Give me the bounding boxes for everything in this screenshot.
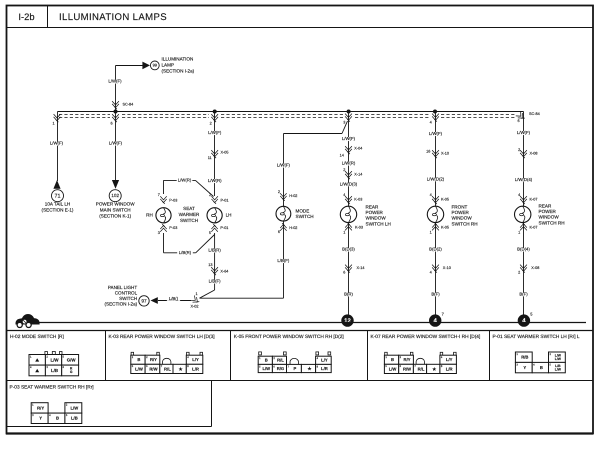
svg-text:R/G: R/G [277, 366, 284, 371]
svg-text:X-64: X-64 [220, 270, 228, 274]
svg-text:P-03 SEAT WARMER SWITCH RH [Rr: P-03 SEAT WARMER SWITCH RH [Rr] [10, 385, 94, 391]
svg-text:3: 3 [343, 121, 345, 125]
svg-text:K-05: K-05 [441, 198, 449, 202]
svg-text:B: B [265, 358, 268, 363]
svg-text:P-01: P-01 [221, 199, 229, 203]
svg-text:L/R: L/R [192, 366, 199, 371]
svg-text:7: 7 [158, 193, 160, 197]
svg-text:1: 1 [518, 231, 520, 235]
svg-text:X-10: X-10 [443, 266, 451, 270]
svg-text:(SECTION I-2a): (SECTION I-2a) [105, 302, 138, 307]
svg-text:X-02: X-02 [190, 305, 198, 309]
svg-text:2: 2 [343, 168, 345, 172]
svg-text:R/L: R/L [277, 358, 284, 363]
svg-text:B(D(2): B(D(2) [429, 247, 442, 252]
svg-text:L/B(R): L/B(R) [208, 248, 221, 253]
svg-text:I-2b: I-2b [18, 11, 34, 22]
svg-text:WINDOW: WINDOW [539, 215, 560, 220]
svg-text:K-03: K-03 [354, 198, 362, 202]
svg-text:R/L: R/L [418, 366, 425, 371]
svg-text:X-08: X-08 [531, 266, 539, 270]
svg-text:L/W(F): L/W(F) [342, 136, 356, 141]
svg-text:L/W(R): L/W(R) [178, 178, 192, 183]
svg-text:L/B(R): L/B(R) [179, 250, 192, 255]
svg-text:K-03 REAR POWER WINDOW SWITCH: K-03 REAR POWER WINDOW SWITCH LH [D(3] [109, 334, 215, 340]
svg-text:L/W: L/W [51, 357, 60, 362]
svg-text:K-05: K-05 [441, 226, 449, 230]
svg-text:14: 14 [340, 154, 344, 158]
svg-text:K-05 FRONT POWER WINDOW SWITCH: K-05 FRONT POWER WINDOW SWITCH RH [D(2] [234, 334, 344, 340]
svg-text:R/B: R/B [521, 355, 528, 360]
svg-text:4: 4 [430, 271, 432, 275]
svg-text:6: 6 [517, 119, 519, 123]
svg-text:R/L: R/L [164, 366, 171, 371]
svg-text:5: 5 [209, 231, 211, 235]
svg-text:K-07: K-07 [530, 226, 538, 230]
svg-text:B: B [391, 357, 394, 362]
svg-text:P-03: P-03 [169, 226, 177, 230]
svg-text:97: 97 [141, 298, 147, 304]
svg-text:99: 99 [153, 63, 158, 68]
svg-text:R/W: R/W [149, 366, 157, 371]
svg-text:L/W(F): L/W(F) [108, 79, 122, 84]
svg-text:ILLUMINATION LAMPS: ILLUMINATION LAMPS [59, 12, 167, 23]
svg-text:SEAT: SEAT [183, 206, 195, 211]
svg-text:WINDOW: WINDOW [452, 216, 473, 221]
svg-text:PANEL LIGHT: PANEL LIGHT [108, 285, 138, 290]
svg-text:G: G [70, 370, 73, 374]
svg-text:LAMP: LAMP [162, 63, 175, 68]
svg-text:L/R: L/R [446, 366, 453, 371]
svg-text:5: 5 [530, 312, 533, 317]
svg-text:ILLUMINATION: ILLUMINATION [162, 57, 194, 62]
svg-text:L/W: L/W [555, 357, 562, 361]
svg-text:X-14: X-14 [354, 173, 362, 177]
svg-text:★: ★ [431, 366, 436, 371]
svg-text:13: 13 [208, 263, 212, 267]
svg-text:L/W(F): L/W(F) [109, 141, 123, 146]
svg-text:REAR: REAR [539, 204, 552, 209]
svg-text:POWER WINDOW: POWER WINDOW [96, 202, 135, 207]
svg-text:L/B(): L/B() [169, 296, 179, 301]
svg-text:WINDOW: WINDOW [366, 216, 387, 221]
svg-text:X-14: X-14 [357, 266, 365, 270]
svg-text:P-01 SEAT WARMER SWITCH LH [R/: P-01 SEAT WARMER SWITCH LH [R/] L [493, 334, 580, 340]
svg-text:1: 1 [430, 231, 432, 235]
svg-text:2: 2 [518, 148, 520, 152]
svg-text:1: 1 [343, 231, 345, 235]
svg-text:X-05: X-05 [221, 151, 229, 155]
svg-text:G/W: G/W [67, 357, 77, 362]
svg-text:L/W(F): L/W(F) [50, 141, 64, 146]
svg-text:L/B: L/B [51, 368, 58, 373]
svg-text:L/W(D(3): L/W(D(3) [340, 182, 358, 187]
svg-text:SWITCH: SWITCH [119, 296, 137, 301]
svg-text:SWITCH RH: SWITCH RH [452, 221, 478, 226]
svg-text:L/W: L/W [71, 405, 79, 410]
svg-text:SWITCH: SWITCH [180, 218, 198, 223]
svg-text:71: 71 [55, 193, 61, 199]
svg-text:B(F): B(F) [519, 292, 528, 297]
svg-text:P: P [294, 366, 297, 371]
svg-text:L/W: L/W [262, 366, 270, 371]
svg-text:L/W: L/W [135, 366, 143, 371]
svg-text:7: 7 [442, 312, 445, 317]
svg-text:K-03: K-03 [355, 226, 363, 230]
svg-text:L/Y: L/Y [192, 357, 199, 362]
svg-text:L/R: L/R [321, 366, 328, 371]
svg-text:L/W(D(2): L/W(D(2) [427, 177, 445, 182]
svg-text:3: 3 [158, 231, 160, 235]
svg-text:L/W(R): L/W(R) [208, 178, 222, 183]
svg-text:WARMER: WARMER [179, 212, 200, 217]
svg-text:★: ★ [307, 366, 312, 371]
svg-text:1: 1 [195, 292, 197, 296]
svg-text:L/W(R): L/W(R) [342, 161, 356, 166]
svg-text:L/B: L/B [71, 416, 78, 421]
svg-text:X-08: X-08 [530, 152, 538, 156]
svg-text:1: 1 [52, 122, 54, 126]
svg-text:R/W: R/W [403, 366, 411, 371]
svg-text:POWER: POWER [539, 209, 557, 214]
svg-text:L/W: L/W [389, 366, 397, 371]
svg-text:SWITCH: SWITCH [296, 214, 314, 219]
svg-text:B(D(3): B(D(3) [342, 247, 355, 252]
svg-text:L/Y: L/Y [446, 357, 453, 362]
svg-text:X-04: X-04 [354, 147, 362, 151]
svg-text:6: 6 [278, 230, 280, 234]
svg-text:R/Y: R/Y [150, 357, 157, 362]
svg-text:SC-84: SC-84 [123, 103, 134, 107]
svg-text:Y: Y [523, 365, 526, 370]
svg-text:16: 16 [426, 150, 430, 154]
svg-text:2: 2 [278, 190, 280, 194]
svg-text:12: 12 [344, 317, 351, 324]
svg-text:B: B [540, 365, 543, 370]
svg-text:B(R): B(R) [344, 292, 353, 297]
svg-text:L/W(F): L/W(F) [208, 130, 222, 135]
svg-text:11: 11 [208, 156, 212, 160]
svg-text:(SECTION K-1): (SECTION K-1) [99, 213, 131, 218]
svg-text:L/B(F): L/B(F) [209, 279, 222, 284]
svg-text:LH: LH [226, 213, 232, 218]
svg-text:CONTROL: CONTROL [115, 291, 138, 296]
svg-text:SWITCH LH: SWITCH LH [366, 221, 391, 226]
svg-text:Y: Y [39, 416, 42, 421]
svg-text:4: 4 [343, 193, 345, 197]
svg-text:4: 4 [430, 193, 432, 197]
svg-text:2: 2 [518, 271, 520, 275]
svg-text:H-02: H-02 [289, 194, 297, 198]
svg-text:POWER: POWER [452, 210, 470, 215]
svg-text:X-10: X-10 [441, 152, 449, 156]
svg-text:H-02: H-02 [289, 226, 297, 230]
svg-text:SC-84: SC-84 [529, 112, 540, 116]
svg-text:(SECTION E-1): (SECTION E-1) [42, 208, 74, 213]
svg-text:P-03: P-03 [169, 199, 177, 203]
svg-text:MAIN SWITCH: MAIN SWITCH [100, 208, 131, 213]
svg-text:102: 102 [111, 193, 119, 198]
svg-text:L/W(F): L/W(F) [277, 163, 291, 168]
svg-text:4: 4 [518, 193, 520, 197]
svg-text:RH: RH [146, 213, 153, 218]
svg-text:K-07: K-07 [530, 198, 538, 202]
svg-text:POWER: POWER [366, 210, 384, 215]
svg-text:L/B(F): L/B(F) [277, 258, 290, 263]
svg-text:B: B [137, 357, 140, 362]
svg-text:B: B [56, 416, 59, 421]
svg-text:10A TAIL LH: 10A TAIL LH [45, 202, 70, 207]
svg-text:(SECTION I-2a): (SECTION I-2a) [162, 69, 195, 74]
svg-text:B(D(4): B(D(4) [517, 247, 530, 252]
svg-text:L/W: L/W [555, 367, 562, 371]
svg-text:4: 4 [430, 121, 432, 125]
svg-text:P-01: P-01 [220, 226, 228, 230]
svg-text:6: 6 [343, 271, 345, 275]
svg-text:K-07 REAR POWER WINDOW SWITCH-: K-07 REAR POWER WINDOW SWITCH-I RH [D(4] [371, 334, 481, 340]
svg-text:L/W(D(4): L/W(D(4) [515, 177, 533, 182]
svg-text:B(F): B(F) [431, 292, 440, 297]
svg-text:R/Y: R/Y [37, 405, 44, 410]
svg-text:H-02 MODE SWITCH [R]: H-02 MODE SWITCH [R] [10, 334, 64, 340]
svg-text:6: 6 [110, 122, 112, 126]
svg-text:★: ★ [178, 366, 183, 371]
svg-text:SWITCH RH: SWITCH RH [539, 220, 565, 225]
svg-text:L/Y: L/Y [321, 358, 328, 363]
svg-text:MODE: MODE [296, 208, 310, 213]
svg-text:L/W(F): L/W(F) [517, 130, 531, 135]
svg-text:2: 2 [210, 122, 212, 126]
svg-text:R/Y: R/Y [404, 357, 411, 362]
svg-text:REAR: REAR [366, 205, 379, 210]
svg-text:L/W(F): L/W(F) [429, 131, 443, 136]
svg-text:FRONT: FRONT [452, 205, 468, 210]
